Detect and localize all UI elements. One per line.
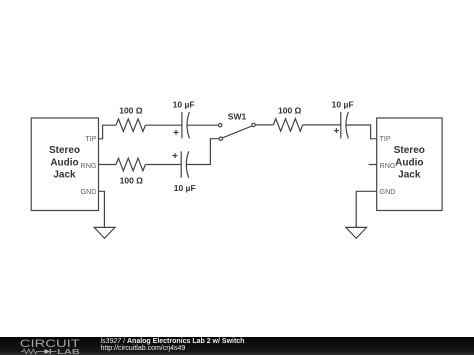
svg-text:LAB: LAB (57, 347, 80, 355)
wire C2 to SW1 throw2 (186, 139, 219, 165)
svg-text:GND: GND (81, 187, 97, 196)
resistor R2 (116, 158, 145, 171)
svg-text:GND: GND (380, 187, 396, 196)
schematic url text (101, 345, 186, 352)
wire R3 to C3 (303, 124, 341, 126)
wire C3 to J2 TIP (346, 125, 377, 139)
svg-text:Stereo: Stereo (49, 145, 80, 156)
resistor R3 (273, 119, 302, 132)
wire SW1 common to R3 (255, 124, 273, 126)
ground symbol right (346, 227, 367, 238)
svg-text:100 Ω: 100 Ω (120, 175, 144, 185)
svg-text:10 µF: 10 µF (332, 99, 354, 109)
svg-text:RNG: RNG (81, 161, 97, 170)
svg-text:10 µF: 10 µF (174, 183, 196, 193)
svg-text:Audio: Audio (50, 157, 78, 168)
wire J2 GND to ground (356, 191, 377, 227)
capacitor C1 (174, 112, 190, 138)
wire C1 to SW1 throw1 (187, 124, 219, 126)
resistor R1 (116, 119, 145, 132)
svg-text:TIP: TIP (380, 134, 391, 143)
svg-text:Audio: Audio (395, 157, 423, 168)
svg-text:100 Ω: 100 Ω (119, 106, 143, 116)
J2 RNG pin stub (369, 164, 377, 166)
capacitor C2 (173, 151, 189, 177)
stereo audio jack J2 body (377, 118, 442, 211)
CircuitLab logo (0, 337, 90, 355)
schematic title text (101, 338, 245, 345)
wire J1 RNG to R2 (99, 164, 117, 166)
svg-text:SW1: SW1 (228, 111, 247, 121)
svg-text:Jack: Jack (53, 170, 76, 181)
svg-text:100 Ω: 100 Ω (278, 106, 302, 116)
capacitor C3 (334, 112, 348, 138)
wire J1 TIP to R1 (99, 125, 117, 139)
wire J1 GND to ground (99, 191, 105, 227)
ground symbol left (94, 227, 115, 238)
footer bar (0, 337, 474, 355)
svg-text:TIP: TIP (85, 134, 96, 143)
svg-text:10 µF: 10 µF (173, 99, 195, 109)
svg-text:RNG: RNG (380, 161, 396, 170)
wire R2 to C2 (145, 164, 181, 166)
wire R1 to C1 (145, 124, 182, 126)
svg-text:Jack: Jack (398, 170, 421, 181)
stereo audio jack J1 body (31, 118, 98, 211)
switch SW1 (219, 123, 256, 140)
svg-text:Stereo: Stereo (394, 145, 425, 156)
